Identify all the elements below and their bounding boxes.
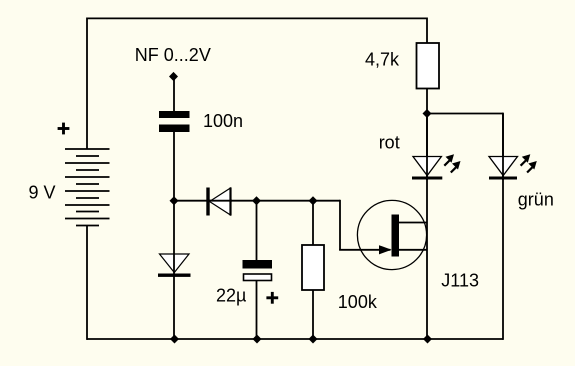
svg-text:100k: 100k bbox=[338, 292, 378, 312]
node mid rail left bbox=[170, 196, 179, 205]
wire NF stub down to C1 bbox=[173, 77, 175, 112]
wire branch to green LED bbox=[427, 113, 503, 115]
svg-text:22µ: 22µ bbox=[216, 285, 246, 305]
capacitor C2 22u electrolytic bbox=[243, 201, 273, 339]
wire bottom rail bbox=[87, 338, 503, 340]
wire left vertical from battery minus to bottom rail bbox=[86, 226, 88, 340]
LED D3 rot bbox=[412, 114, 461, 181]
svg-text:100n: 100n bbox=[203, 111, 243, 131]
wire green LED vertical bbox=[502, 113, 504, 340]
battery BT1 9V bbox=[65, 149, 110, 226]
node mid rail 100k bbox=[309, 196, 318, 205]
label C2 plus bbox=[266, 292, 278, 304]
wire left vertical from top rail to battery plus bbox=[86, 18, 88, 150]
resistor R1 100k bbox=[302, 201, 324, 339]
svg-text:9 V: 9 V bbox=[29, 183, 56, 203]
wire gate lead bbox=[339, 249, 390, 251]
wire right vertical rail x=427 bbox=[426, 18, 428, 340]
node bottom rail Q1 source bbox=[423, 335, 432, 344]
node NF input bbox=[169, 72, 178, 81]
diode D2 bbox=[158, 201, 191, 339]
capacitor C1 100n bbox=[159, 111, 190, 132]
wire top rail bbox=[87, 17, 427, 19]
svg-text:J113: J113 bbox=[441, 270, 479, 290]
wire C1 to mid rail bbox=[173, 132, 175, 201]
LED D4 gruen bbox=[489, 114, 537, 181]
svg-text:rot: rot bbox=[379, 133, 400, 153]
node bottom rail D2 bbox=[170, 335, 179, 344]
svg-text:grün: grün bbox=[518, 190, 554, 210]
node LED junction bbox=[423, 109, 432, 118]
svg-text:NF 0...2V: NF 0...2V bbox=[135, 45, 211, 65]
svg-text:4,7k: 4,7k bbox=[365, 50, 400, 70]
wire bend down to gate level bbox=[339, 200, 341, 250]
transistor Q1 J113 JFET bbox=[357, 200, 427, 269]
node mid rail 22u bbox=[252, 196, 261, 205]
label battery plus bbox=[58, 123, 70, 135]
resistor R2 4,7k bbox=[417, 43, 440, 89]
node bottom rail C2 bbox=[253, 335, 262, 344]
node bottom rail R1 bbox=[309, 335, 318, 344]
wire mid rail bbox=[174, 200, 340, 202]
diode D1 bbox=[206, 188, 232, 216]
